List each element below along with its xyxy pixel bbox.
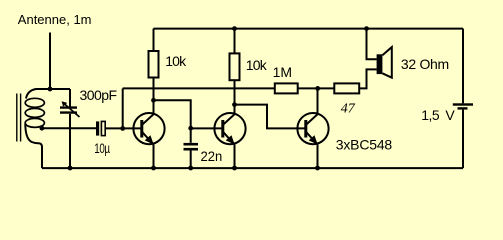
wire battery bottom lead bbox=[462, 110, 464, 169]
svg-text:32 Ohm: 32 Ohm bbox=[401, 56, 449, 72]
transistor Q3 emitter arrow bbox=[310, 136, 317, 144]
wire speaker top lead bbox=[367, 29, 377, 60]
wire coil top entry bbox=[26, 89, 50, 99]
wire 47 to speaker bottom bbox=[359, 69, 376, 88]
transistor Q2 emitter arrow bbox=[227, 136, 234, 144]
wire antenna lead bbox=[49, 33, 51, 90]
svg-text:10k: 10k bbox=[165, 53, 187, 69]
wire Q2 collector to Q3 base bbox=[235, 105, 306, 129]
wire coil bottom exit bbox=[25, 123, 42, 168]
wire battery top lead bbox=[462, 29, 464, 104]
svg-text:47: 47 bbox=[341, 101, 356, 116]
resistor R2 10k body bbox=[230, 53, 240, 80]
node Q2 base / C3 junction bbox=[188, 126, 193, 131]
resistor R1 10k top lead bbox=[153, 29, 155, 51]
transistor Q3 bbox=[297, 113, 328, 168]
svg-text:Antenne, 1m: Antenne, 1m bbox=[18, 12, 92, 27]
svg-text:1,5: 1,5 bbox=[421, 107, 440, 123]
capacitor C1 arrow head bbox=[62, 101, 68, 106]
svg-text:22n: 22n bbox=[201, 148, 223, 164]
wire C2 to Q1 base bbox=[105, 127, 141, 129]
node bottom rail Q1 emitter bbox=[151, 166, 156, 171]
node coil tap bbox=[40, 126, 45, 131]
svg-text:V: V bbox=[445, 107, 455, 123]
wire coil tap to C2 bbox=[42, 127, 96, 129]
node top rail speaker bbox=[364, 26, 369, 31]
ferrite core bar 1 bbox=[16, 94, 18, 142]
wire to Q2 base bar bbox=[191, 127, 223, 129]
ferrite core bar 2 bbox=[20, 94, 22, 142]
wire tank top bbox=[50, 88, 70, 90]
wire Q3 collector riser bbox=[317, 88, 319, 113]
battery BT1 short plate bbox=[458, 107, 468, 109]
wire 1M to node bbox=[298, 87, 335, 89]
node bottom rail Q2 emitter bbox=[232, 166, 237, 171]
inductor L1 loop 2 bbox=[25, 108, 44, 117]
wire Q1 collector to Q2 base bbox=[154, 100, 191, 128]
node bottom rail C3 bbox=[188, 166, 193, 171]
transistor Q1 emitter arrow bbox=[146, 136, 153, 144]
node bottom rail varcap bbox=[68, 166, 73, 171]
capacitor C1 plate top bbox=[60, 106, 77, 108]
transistor Q2 bbox=[214, 113, 245, 168]
node Q1 collector junction bbox=[151, 98, 156, 103]
speaker LS1 box bbox=[377, 54, 383, 74]
speaker LS1 horn bbox=[382, 47, 391, 78]
capacitor C3 bottom lead bbox=[190, 151, 192, 169]
resistor R3 1M body bbox=[275, 83, 298, 93]
node Q1 base junction bbox=[120, 126, 125, 131]
capacitor C1 trimmer arrow shaft bbox=[63, 103, 80, 117]
capacitor C3 plate top bbox=[184, 143, 199, 146]
svg-text:3xBC548: 3xBC548 bbox=[336, 136, 393, 152]
inductor L1 loop 3 bbox=[25, 118, 44, 127]
node antenna/coil/cap junction bbox=[48, 87, 53, 92]
node 1M/47/Q3 collector junction bbox=[315, 86, 320, 91]
node bottom rail Q3 emitter bbox=[315, 166, 320, 171]
svg-text:1M: 1M bbox=[273, 64, 292, 80]
wire feedback line to 1M bbox=[123, 87, 275, 89]
transistor Q1 bbox=[133, 113, 164, 168]
wire Q1 base riser bbox=[122, 88, 124, 128]
capacitor C3 plate bottom bbox=[184, 148, 199, 151]
svg-text:10k: 10k bbox=[246, 57, 268, 73]
capacitor C3 22n top lead bbox=[190, 128, 192, 143]
capacitor C1 plate bottom bbox=[60, 111, 77, 113]
node top rail R2 bbox=[232, 26, 237, 31]
resistor R2 10k top lead bbox=[234, 29, 236, 54]
wire R2 bottom to Q2 collector bbox=[234, 80, 236, 114]
node Q2 collector junction bbox=[232, 102, 237, 107]
inductor L1 loop 1 bbox=[25, 98, 44, 107]
wire top rail bbox=[154, 28, 464, 30]
capacitor C1 300pF top lead bbox=[69, 89, 71, 107]
wire bottom rail bbox=[42, 167, 463, 169]
svg-text:300pF: 300pF bbox=[80, 87, 117, 103]
resistor R4 47 body bbox=[334, 83, 359, 93]
capacitor C1 bottom lead to rail bbox=[69, 114, 71, 168]
wire R1 bottom to Q1 collector bbox=[153, 78, 155, 115]
capacitor C2 10u right plate (hollow) bbox=[101, 121, 105, 135]
resistor R1 10k body bbox=[149, 51, 159, 78]
battery BT1 long plate bbox=[453, 103, 473, 105]
capacitor C2 10u left plate bbox=[96, 121, 99, 135]
svg-text:10µ: 10µ bbox=[94, 140, 110, 156]
